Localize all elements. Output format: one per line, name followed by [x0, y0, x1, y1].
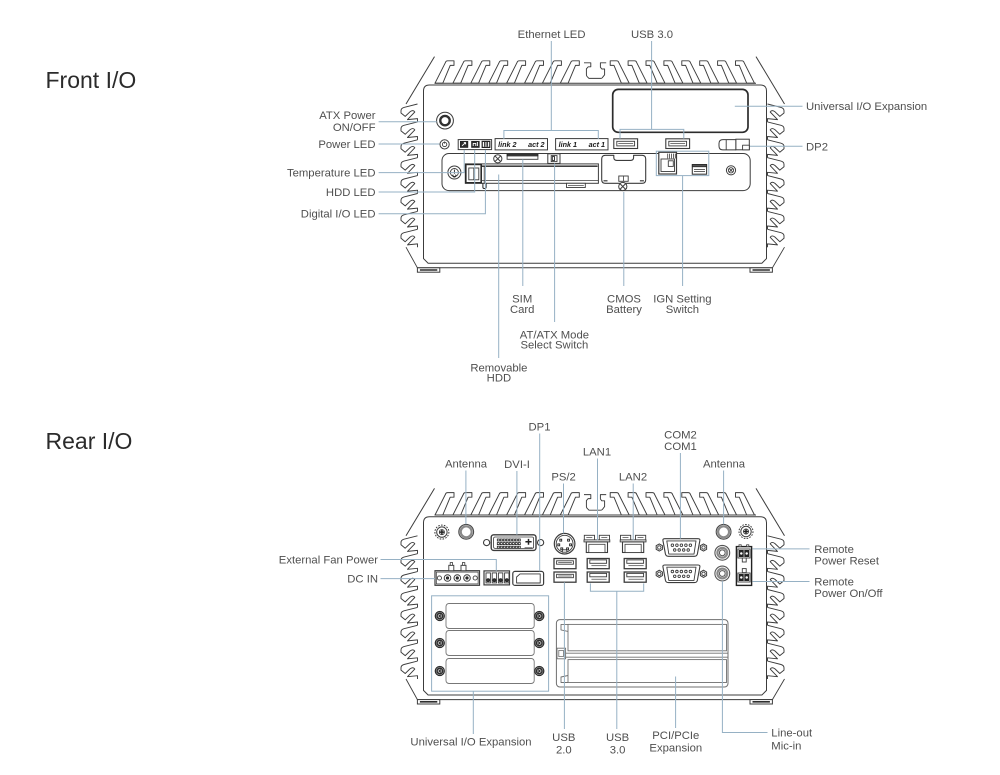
svg-text:Battery: Battery	[606, 304, 642, 316]
svg-text:DVI-I: DVI-I	[504, 459, 530, 471]
svg-text:Switch: Switch	[666, 304, 699, 316]
svg-text:LAN1: LAN1	[583, 447, 611, 459]
svg-text:3.0: 3.0	[610, 744, 626, 756]
svg-text:Antenna: Antenna	[445, 458, 488, 470]
svg-text:PCI/PCIe: PCI/PCIe	[652, 730, 699, 742]
svg-text:Universal I/O Expansion: Universal I/O Expansion	[410, 737, 531, 749]
svg-text:act 2: act 2	[528, 140, 544, 149]
svg-text:Power Reset: Power Reset	[814, 555, 880, 567]
svg-text:Ethernet LED: Ethernet LED	[518, 29, 586, 41]
svg-text:USB: USB	[606, 732, 629, 744]
svg-text:Remote: Remote	[814, 576, 854, 588]
svg-text:HDD LED: HDD LED	[326, 187, 376, 199]
svg-text:USB 3.0: USB 3.0	[631, 29, 673, 41]
svg-text:LAN2: LAN2	[619, 472, 647, 484]
svg-text:Rear I/O: Rear I/O	[46, 428, 133, 454]
svg-text:Line-out: Line-out	[771, 728, 813, 740]
svg-text:HDD: HDD	[487, 373, 511, 385]
svg-text:link 2: link 2	[498, 140, 516, 149]
svg-text:Remote: Remote	[814, 544, 854, 556]
svg-text:ON/OFF: ON/OFF	[333, 122, 376, 134]
svg-text:Mic-in: Mic-in	[771, 741, 801, 753]
svg-text:COM1: COM1	[664, 441, 697, 453]
svg-text:Power LED: Power LED	[318, 139, 375, 151]
svg-text:DC IN: DC IN	[347, 574, 378, 586]
svg-text:Universal I/O Expansion: Universal I/O Expansion	[806, 101, 927, 113]
svg-text:Digital I/O LED: Digital I/O LED	[301, 209, 376, 221]
svg-text:Antenna: Antenna	[703, 458, 746, 470]
svg-text:Power On/Off: Power On/Off	[814, 588, 883, 600]
svg-text:External Fan Power: External Fan Power	[279, 555, 378, 567]
svg-text:DP2: DP2	[806, 142, 828, 154]
svg-text:USB: USB	[552, 732, 575, 744]
svg-text:Card: Card	[510, 304, 535, 316]
svg-text:ATX Power: ATX Power	[319, 110, 376, 122]
svg-text:link 1: link 1	[559, 140, 577, 149]
svg-text:DP1: DP1	[529, 422, 551, 434]
svg-text:Temperature LED: Temperature LED	[287, 168, 376, 180]
svg-text:PS/2: PS/2	[551, 472, 576, 484]
svg-text:COM2: COM2	[664, 430, 697, 442]
svg-text:Expansion: Expansion	[649, 743, 702, 755]
svg-text:act 1: act 1	[589, 140, 605, 149]
svg-text:Front I/O: Front I/O	[46, 67, 137, 93]
svg-text:Select Switch: Select Switch	[520, 340, 588, 352]
svg-text:2.0: 2.0	[556, 744, 572, 756]
